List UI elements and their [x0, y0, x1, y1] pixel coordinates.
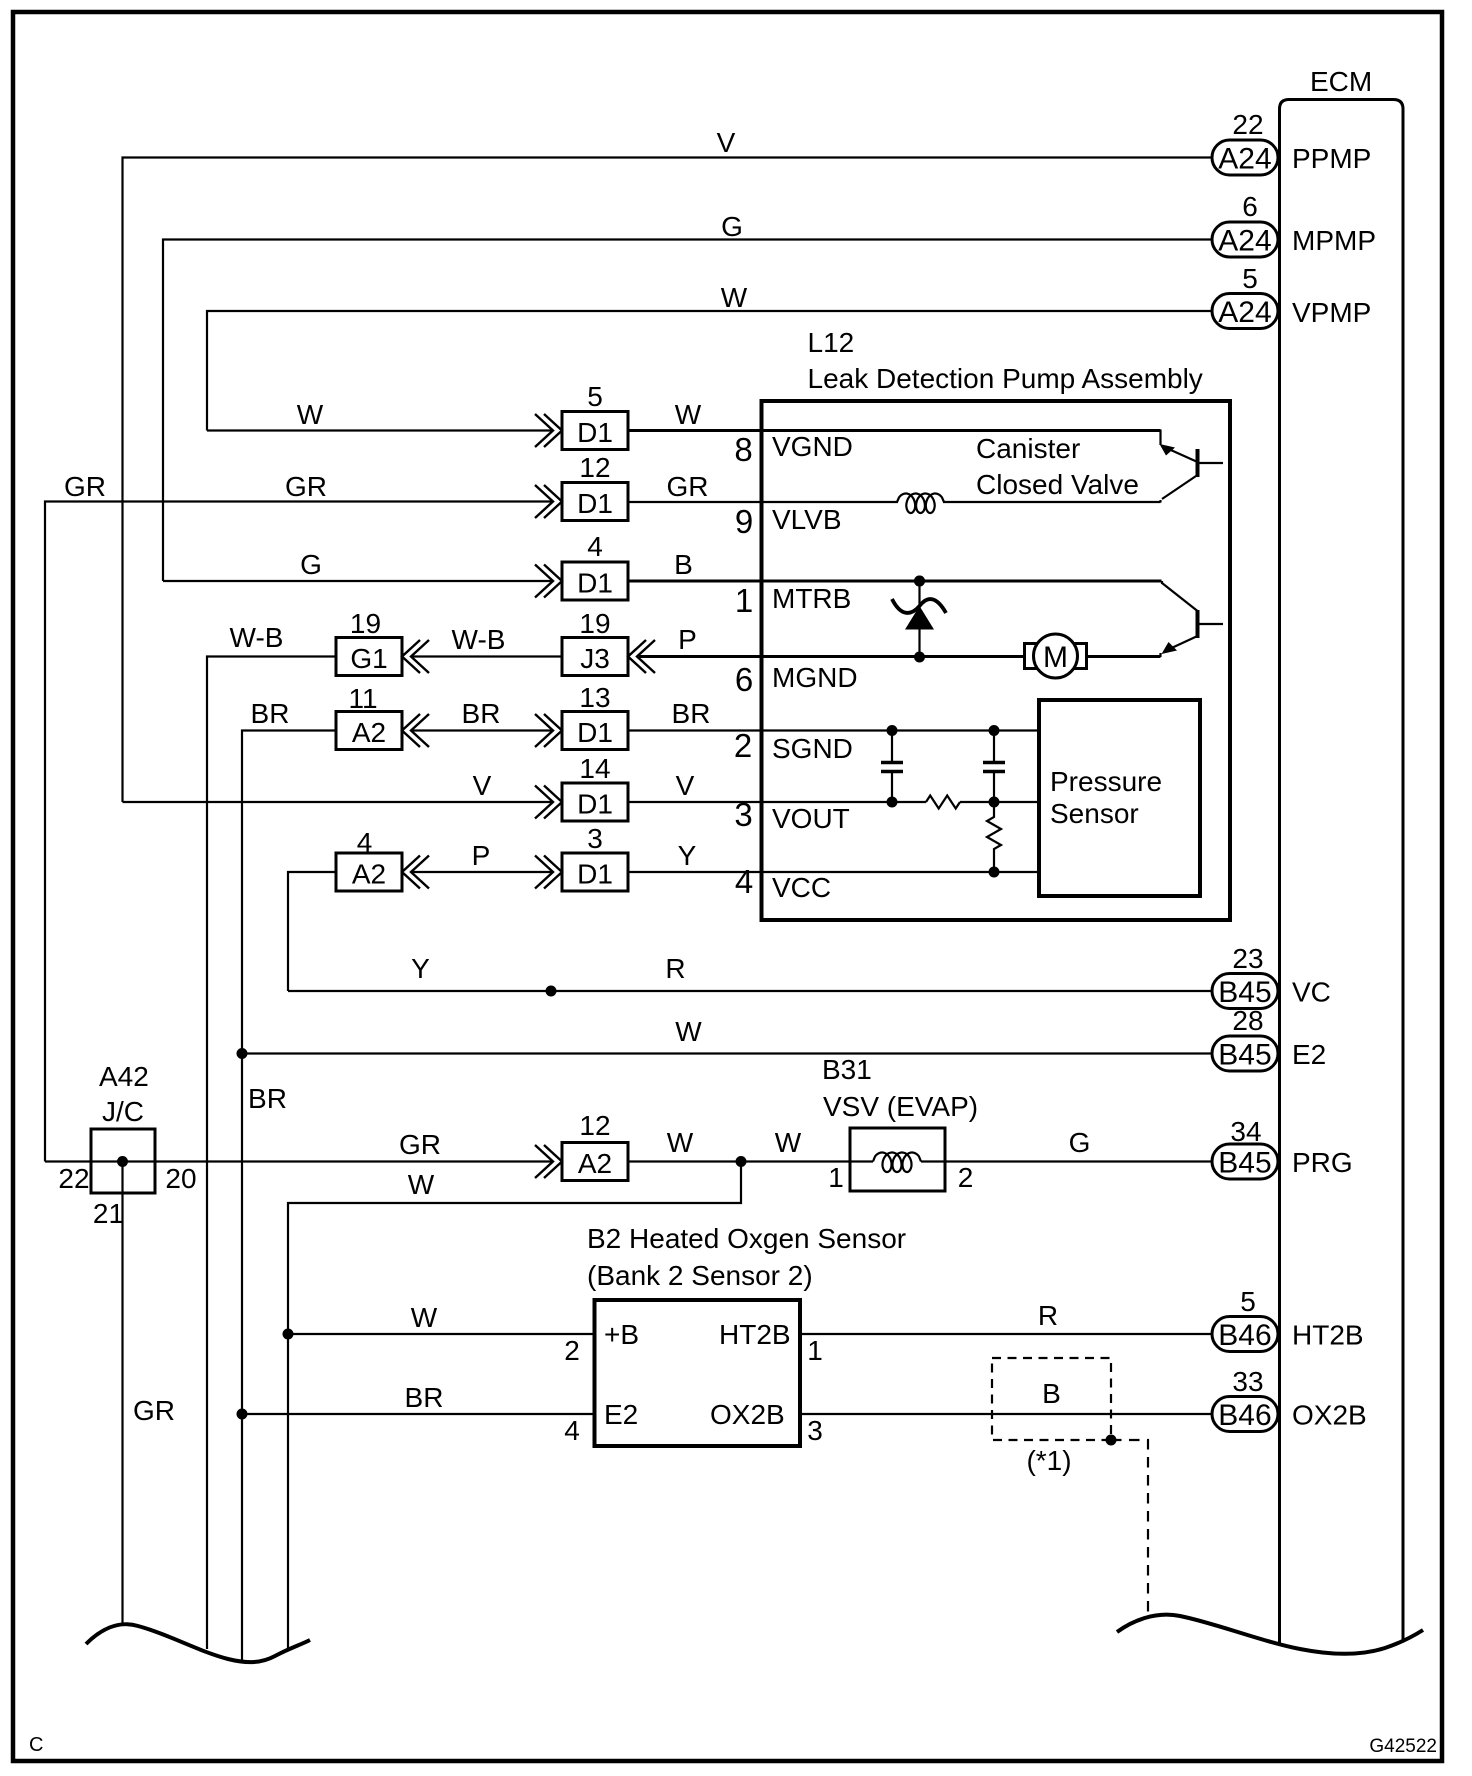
- svg-text:12: 12: [579, 452, 610, 483]
- wire GR: D1 pin 12 to L12 pin 9 VLVB (inductor of canister closed valve): [628, 471, 1161, 540]
- svg-text:W-B: W-B: [230, 622, 284, 653]
- svg-text:GR: GR: [667, 471, 709, 502]
- svg-text:3: 3: [807, 1415, 823, 1446]
- arrow into D1 pin 5: [535, 414, 562, 447]
- arrow into D1 pin 13: [535, 714, 562, 747]
- connector D1 pin 4: [562, 531, 628, 600]
- svg-text:MTRB: MTRB: [772, 583, 851, 614]
- wire GR: left edge to connector D1 pin 12: [45, 471, 553, 1162]
- svg-text:4: 4: [587, 531, 603, 562]
- svg-text:J/C: J/C: [102, 1096, 144, 1127]
- svg-text:BR: BR: [248, 1083, 287, 1114]
- svg-text:R: R: [1038, 1300, 1058, 1331]
- svg-text:Pressure: Pressure: [1050, 766, 1162, 797]
- wire GR: J/C pin 21 down to bottom break: [123, 1162, 176, 1626]
- svg-text:5: 5: [1240, 1286, 1256, 1317]
- svg-text:2: 2: [734, 727, 752, 764]
- svg-text:VSV (EVAP): VSV (EVAP): [823, 1091, 978, 1122]
- svg-text:8: 8: [734, 431, 752, 468]
- svg-text:VPMP: VPMP: [1292, 297, 1371, 328]
- break symbol bottom left: [86, 1624, 310, 1662]
- svg-text:BR: BR: [405, 1382, 444, 1413]
- svg-text:5: 5: [1242, 263, 1258, 294]
- splice dot on VC wire: [546, 986, 557, 997]
- svg-text:B2 Heated Oxgen Sensor: B2 Heated Oxgen Sensor: [587, 1223, 906, 1254]
- svg-text:21: 21: [93, 1198, 124, 1229]
- svg-text:G: G: [1069, 1127, 1091, 1158]
- arrow out of G1 pin 19: [402, 640, 429, 673]
- svg-text:Y: Y: [678, 840, 697, 871]
- svg-text:W: W: [411, 1302, 438, 1333]
- svg-text:W: W: [721, 282, 748, 313]
- svg-text:W-B: W-B: [452, 624, 506, 655]
- wire G: VSV pin 2 to ECM PRG: [945, 1127, 1212, 1162]
- arrow into D1 pin 4: [535, 565, 562, 598]
- svg-text:W: W: [408, 1169, 435, 1200]
- transistor Q2 (pump motor driver): [1161, 581, 1224, 657]
- svg-text:22: 22: [58, 1163, 89, 1194]
- capacitor C2 (SGND-VOUT right): [983, 725, 1005, 808]
- svg-text:L12: L12: [808, 327, 855, 358]
- wire W: BR trunk to ECM E2: [242, 1016, 1212, 1054]
- svg-text:GR: GR: [64, 471, 106, 502]
- arrow into D1 pin 14: [535, 786, 562, 819]
- svg-text:D1: D1: [577, 789, 613, 820]
- svg-text:3: 3: [734, 796, 752, 833]
- svg-text:(*1): (*1): [1026, 1445, 1071, 1476]
- svg-text:14: 14: [579, 753, 610, 784]
- ECM module box: [1280, 66, 1404, 1646]
- wire P: A2 to D1 pin 3: [411, 840, 553, 872]
- svg-text:D1: D1: [577, 488, 613, 519]
- svg-text:G1: G1: [350, 643, 387, 674]
- svg-text:HT2B: HT2B: [719, 1319, 791, 1350]
- svg-text:3: 3: [587, 823, 603, 854]
- resistor R2 (VOUT-VCC pulldown): [987, 802, 1001, 878]
- svg-text:23: 23: [1232, 943, 1263, 974]
- svg-text:GR: GR: [285, 471, 327, 502]
- connector B46 pin 5 (HT2B): [1212, 1286, 1364, 1352]
- arrow into A2 pin 12: [535, 1145, 562, 1178]
- svg-text:G: G: [721, 211, 743, 242]
- svg-text:BR: BR: [462, 698, 501, 729]
- junction dot MTRB/zener: [914, 576, 925, 587]
- wire W-B: G1 to J3: [411, 624, 562, 657]
- junction dot BR trunk/E2: [237, 1409, 248, 1420]
- connector J3 pin 19: [562, 608, 628, 676]
- svg-text:11: 11: [348, 683, 377, 714]
- capacitor C1 (SGND-VOUT left): [881, 725, 903, 808]
- svg-text:22: 22: [1232, 109, 1263, 140]
- svg-text:A2: A2: [352, 717, 386, 748]
- svg-text:E2: E2: [1292, 1039, 1326, 1070]
- svg-text:W: W: [675, 1016, 702, 1047]
- svg-text:B46: B46: [1218, 1399, 1271, 1432]
- connector A2 pin 4: [336, 827, 402, 891]
- wire B: D1 pin 4 to L12 pin 1 MTRB: [628, 549, 1162, 619]
- svg-text:12: 12: [579, 1110, 610, 1141]
- svg-text:P: P: [678, 624, 697, 655]
- svg-text:MPMP: MPMP: [1292, 225, 1376, 256]
- svg-text:OX2B: OX2B: [710, 1399, 785, 1430]
- svg-text:A24: A24: [1218, 296, 1271, 329]
- svg-text:P: P: [472, 840, 491, 871]
- wire G: ECM MPMP to MTRB row (left drop): [163, 211, 1212, 581]
- svg-text:VC: VC: [1292, 977, 1331, 1008]
- arrow out of J3 pin 19: [628, 640, 655, 673]
- svg-text:VCC: VCC: [772, 872, 831, 903]
- svg-text:J3: J3: [580, 643, 610, 674]
- wire BR: trunk to B2 E2: [242, 1382, 595, 1414]
- connector D1 pin 5: [562, 381, 628, 450]
- svg-text:Leak Detection Pump Assembly: Leak Detection Pump Assembly: [808, 363, 1203, 394]
- junction dot E2/BR trunk: [237, 1048, 248, 1059]
- shielded section dashed box (*1): [992, 1358, 1111, 1476]
- svg-text:(Bank 2 Sensor 2): (Bank 2 Sensor 2): [587, 1260, 813, 1291]
- resistor R1 (series in VOUT): [926, 796, 960, 809]
- wire W: branch to B2 +B: [288, 1302, 595, 1334]
- svg-text:6: 6: [735, 661, 753, 698]
- svg-text:20: 20: [165, 1163, 196, 1194]
- svg-text:W: W: [297, 399, 324, 430]
- svg-text:VGND: VGND: [772, 431, 853, 462]
- wire P: A2 pin 4 to VC row corner: [288, 872, 336, 991]
- svg-text:4: 4: [564, 1415, 580, 1446]
- svg-text:6: 6: [1242, 191, 1258, 222]
- svg-text:A42: A42: [99, 1061, 149, 1092]
- svg-text:ECM: ECM: [1310, 66, 1372, 97]
- wire BR: A2 pin 11 down to bottom break: [242, 698, 336, 1660]
- svg-text:A24: A24: [1218, 225, 1271, 258]
- arrow into D1 pin 3: [535, 856, 562, 889]
- svg-text:Y: Y: [411, 953, 430, 984]
- svg-text:B31: B31: [822, 1054, 872, 1085]
- wire W: branch down to B2 sensor +B: [288, 1162, 741, 1652]
- svg-text:+B: +B: [604, 1319, 639, 1350]
- connector B45 pin 23 (VC): [1212, 943, 1331, 1009]
- svg-text:Canister: Canister: [976, 433, 1080, 464]
- arrow into D1 pin 12: [535, 485, 562, 518]
- svg-text:PRG: PRG: [1292, 1147, 1353, 1178]
- svg-text:D1: D1: [577, 859, 613, 890]
- wire Y/R: A2 pin 4 drop to ECM VC: [288, 953, 1212, 991]
- svg-text:W: W: [775, 1127, 802, 1158]
- svg-text:4: 4: [735, 863, 753, 900]
- connector A24 pin 6 (MPMP): [1212, 191, 1376, 258]
- svg-text:D1: D1: [577, 568, 613, 599]
- svg-text:W: W: [667, 1127, 694, 1158]
- svg-text:B46: B46: [1218, 1319, 1271, 1352]
- connector D1 pin 13: [562, 682, 628, 750]
- junction dot W branch/+B: [283, 1329, 294, 1340]
- svg-text:D1: D1: [577, 717, 613, 748]
- shield drain dashed wire: [1106, 1435, 1149, 1620]
- svg-text:MGND: MGND: [772, 662, 858, 693]
- wire Y: D1 pin 3 to L12 pin 4 VCC: [628, 840, 1039, 903]
- svg-text:2: 2: [958, 1162, 974, 1193]
- wire BR: D1 pin 13 to L12 pin 2 SGND: [628, 698, 1039, 764]
- wire W: ECM VPMP to VGND row (left drop): [207, 282, 1212, 431]
- wire V: ECM PPMP to VOUT row (left drop): [123, 127, 1213, 802]
- Pressure Sensor box: [1039, 700, 1200, 896]
- svg-text:HT2B: HT2B: [1292, 1320, 1364, 1351]
- svg-text:G42522: G42522: [1369, 1736, 1437, 1757]
- connector B45 pin 34 (PRG): [1212, 1116, 1353, 1180]
- wire W-B: G1 pin 19 to bottom break: [207, 622, 336, 1649]
- svg-text:V: V: [717, 127, 736, 158]
- motor M (leak detection pump motor): [1025, 634, 1087, 678]
- svg-text:B: B: [674, 549, 693, 580]
- svg-text:4: 4: [357, 827, 373, 858]
- wire V: D1 pin 14 to L12 pin 3 VOUT: [628, 770, 1039, 834]
- svg-text:PPMP: PPMP: [1292, 143, 1371, 174]
- break symbol bottom right: [1117, 1615, 1423, 1654]
- svg-text:B45: B45: [1218, 1039, 1271, 1072]
- svg-text:VOUT: VOUT: [772, 803, 850, 834]
- wire G: MPMP drop to connector D1 pin 4: [163, 549, 553, 581]
- svg-text:A2: A2: [352, 859, 386, 890]
- svg-text:A2: A2: [578, 1148, 612, 1179]
- svg-text:V: V: [473, 770, 492, 801]
- connector D1 pin 14: [562, 753, 628, 821]
- svg-text:GR: GR: [399, 1129, 441, 1160]
- wire W: A2 pin 12 to VSV pin 1: [628, 1127, 850, 1162]
- connector D1 pin 3: [562, 823, 628, 891]
- connector A2 pin 11: [336, 683, 402, 750]
- svg-text:C: C: [29, 1734, 43, 1756]
- connector D1 pin 12: [562, 452, 628, 521]
- wire W: VPMP drop to connector D1 pin 5: [207, 399, 553, 431]
- svg-text:2: 2: [564, 1335, 580, 1366]
- VSV solenoid coil: [850, 1153, 945, 1173]
- arrow out of A2 pin 11: [402, 714, 429, 747]
- svg-text:1: 1: [828, 1162, 844, 1193]
- svg-text:M: M: [1043, 641, 1068, 674]
- svg-text:OX2B: OX2B: [1292, 1400, 1367, 1431]
- connector B46 pin 33 (OX2B): [1212, 1366, 1367, 1432]
- wire V: PPMP drop to connector D1 pin 14: [123, 770, 554, 802]
- svg-text:B45: B45: [1218, 1147, 1271, 1180]
- wire BR: A2 to D1 pin 13: [411, 698, 553, 731]
- svg-text:BR: BR: [251, 698, 290, 729]
- wire GR: J/C pin 20 to connector A2 pin 12: [45, 1129, 553, 1162]
- transistor Q1 (canister closed valve driver): [1160, 430, 1224, 503]
- svg-text:34: 34: [1230, 1116, 1261, 1147]
- svg-text:1: 1: [807, 1335, 823, 1366]
- svg-text:D1: D1: [577, 417, 613, 448]
- canister closed valve label: [976, 433, 1139, 500]
- canister closed valve solenoid coil: [897, 494, 944, 514]
- svg-text:R: R: [665, 953, 685, 984]
- svg-text:33: 33: [1232, 1366, 1263, 1397]
- svg-text:E2: E2: [604, 1399, 638, 1430]
- svg-text:19: 19: [350, 608, 381, 639]
- L12 Leak Detection Pump Assembly box: [762, 327, 1231, 920]
- svg-text:GR: GR: [133, 1395, 175, 1426]
- zener diode across MTRB/MGND: [892, 576, 946, 663]
- wire: motor to transistor Q2 emitter: [1087, 655, 1161, 658]
- wire R: B2 HT2B to ECM HT2B: [800, 1300, 1212, 1334]
- svg-text:1: 1: [735, 582, 753, 619]
- VSV (EVAP) valve B31: [822, 1054, 978, 1193]
- B2 heated oxygen sensor box: [564, 1223, 906, 1446]
- svg-text:W: W: [675, 399, 702, 430]
- connector A24 pin 5 (VPMP): [1212, 263, 1371, 329]
- junction dot PRG/W branch: [736, 1156, 747, 1167]
- svg-text:V: V: [676, 770, 695, 801]
- arrow out of A2 pin 4: [402, 856, 429, 889]
- svg-text:BR: BR: [672, 698, 711, 729]
- svg-text:13: 13: [579, 682, 610, 713]
- wire W: D1 pin 5 to L12 pin 8 VGND: [628, 399, 1161, 468]
- junction A42 J/C: [58, 1061, 196, 1229]
- connector B45 pin 28 (E2): [1212, 1005, 1326, 1072]
- svg-text:19: 19: [579, 608, 610, 639]
- svg-text:SGND: SGND: [772, 733, 853, 764]
- svg-text:VLVB: VLVB: [772, 504, 842, 535]
- svg-text:Closed Valve: Closed Valve: [976, 469, 1139, 500]
- connector A2 pin 12: [562, 1110, 628, 1181]
- svg-text:9: 9: [735, 503, 753, 540]
- svg-text:B: B: [1042, 1378, 1061, 1409]
- svg-text:5: 5: [587, 381, 603, 412]
- svg-text:G: G: [300, 549, 322, 580]
- wire P: J3 to L12 pin 6 MGND (motor lead): [639, 624, 1024, 698]
- connector A24 pin 22 (PPMP): [1212, 109, 1371, 176]
- svg-text:A24: A24: [1218, 143, 1271, 176]
- svg-text:Sensor: Sensor: [1050, 798, 1139, 829]
- svg-text:28: 28: [1232, 1005, 1263, 1036]
- wire B: B2 OX2B to ECM OX2B: [800, 1378, 1212, 1414]
- connector G1 pin 19: [336, 608, 402, 676]
